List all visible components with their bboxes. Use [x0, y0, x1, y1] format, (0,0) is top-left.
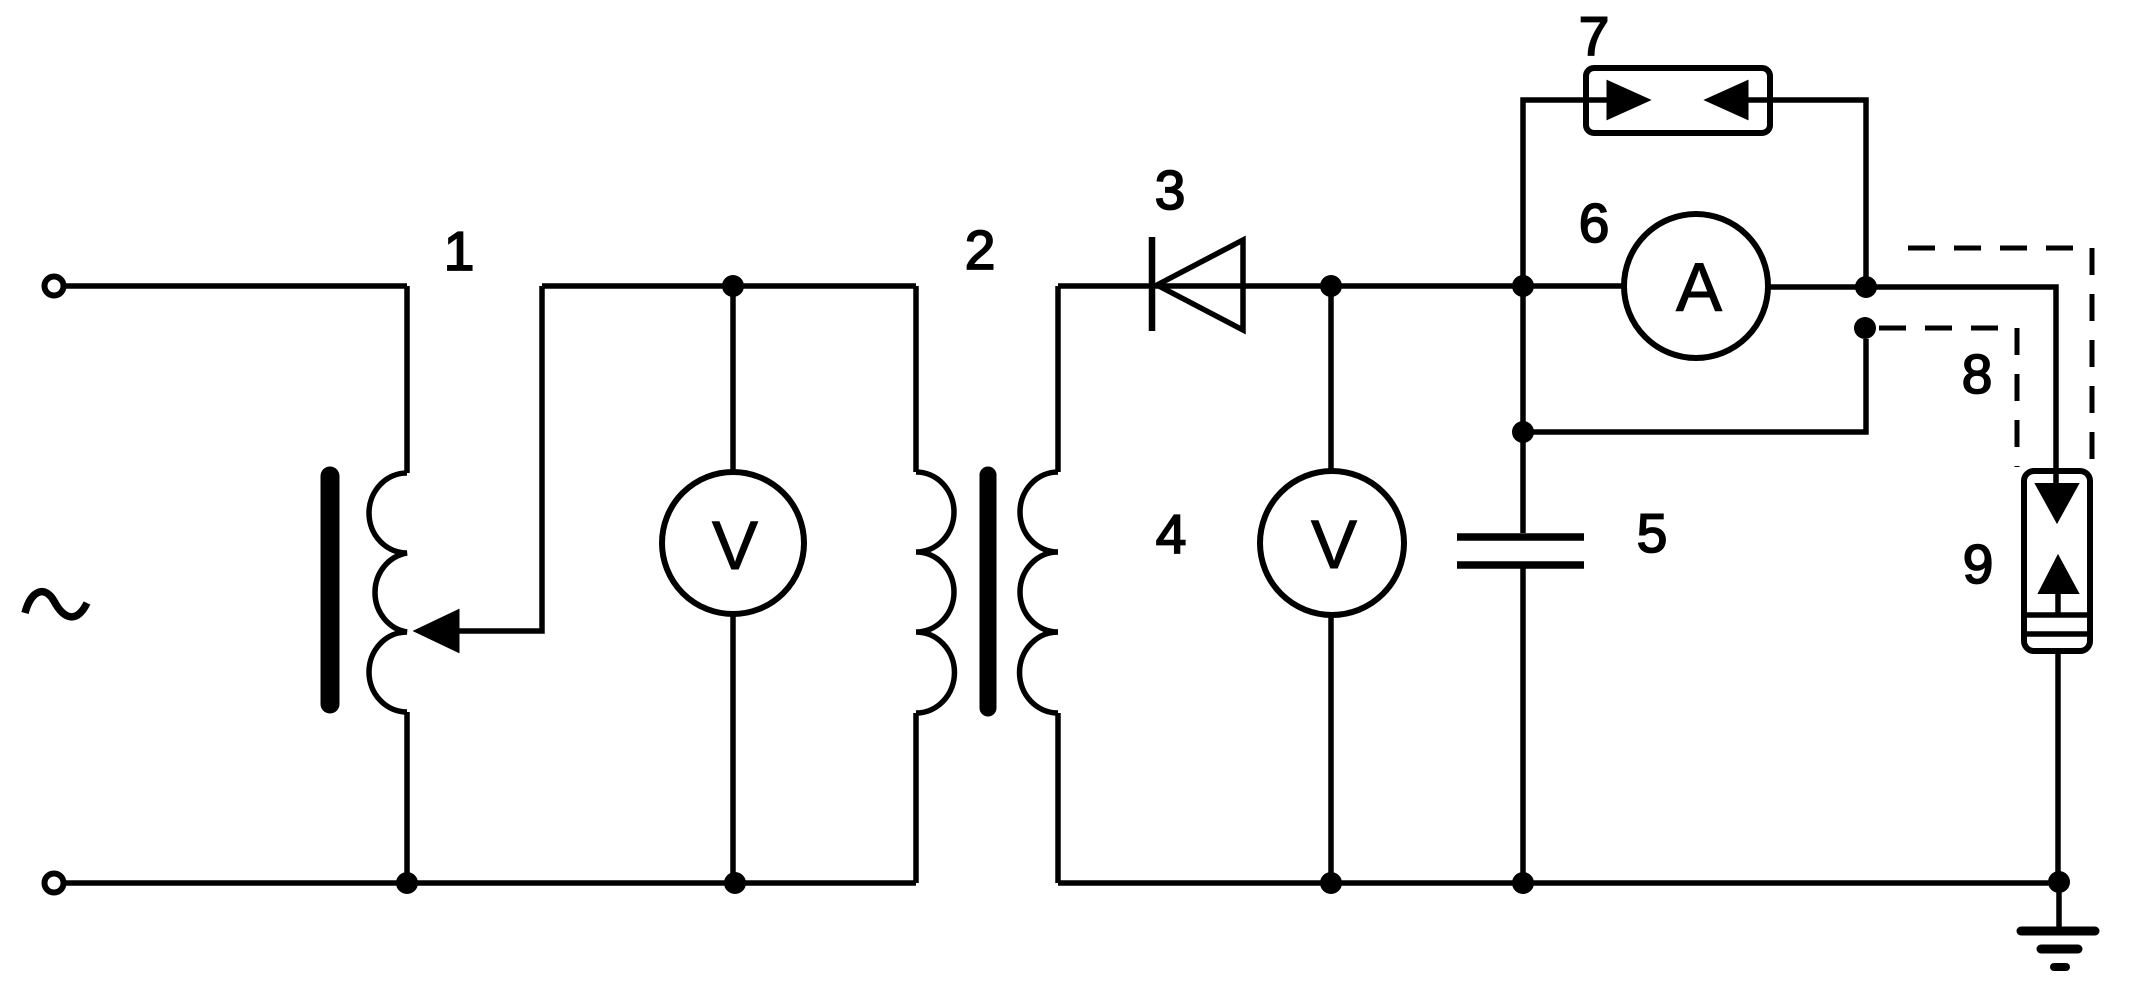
junction diode row / C5	[1512, 275, 1534, 297]
capacitor C5 bottom lead	[1520, 568, 1526, 883]
svg-text:V: V	[1311, 506, 1357, 583]
svg-text:5: 5	[1637, 502, 1668, 564]
tube 9 inner bar 2	[2027, 631, 2087, 637]
junction bottom wire / ground	[2048, 871, 2070, 893]
capacitor C5 plates	[1457, 533, 1584, 541]
wire autotransformer bottom	[404, 712, 410, 883]
junction bottom wire / C5	[1512, 872, 1534, 894]
transformer T2 core bar	[980, 475, 997, 708]
wire top-left horizontal	[64, 283, 407, 289]
svg-text:6: 6	[1579, 192, 1610, 254]
transformer T2 primary winding	[916, 472, 954, 713]
svg-text:2: 2	[965, 219, 996, 281]
wire bottom-right horizontal	[1058, 880, 2059, 886]
diode VD triangle	[1157, 240, 1243, 330]
node shunt end dot	[1854, 317, 1876, 339]
tube 9 box	[2024, 471, 2090, 651]
svg-text:9: 9	[1963, 533, 1994, 595]
ground bar 1	[2021, 927, 2095, 936]
junction diode row / spark gap right	[1855, 276, 1877, 298]
tube 9 lower triangle (up)	[2039, 556, 2078, 593]
svg-text:V: V	[712, 507, 758, 584]
autotransformer tap arrowhead	[416, 611, 458, 651]
autotransformer T1 winding	[369, 473, 407, 712]
wire down to transformer T2 primary	[913, 286, 919, 472]
wire T2 secondary top	[1055, 286, 1061, 472]
wire T2 secondary bottom	[1055, 713, 1061, 883]
terminal bottom-left	[45, 874, 64, 893]
terminal top-left	[45, 277, 64, 296]
junction diode row / V4	[1320, 275, 1342, 297]
wire down to autotransformer coil	[404, 286, 410, 473]
junction C5 lead / shunt	[1512, 421, 1534, 443]
ground bar 3	[2054, 963, 2066, 971]
junction top wire / V1	[722, 275, 744, 297]
svg-text:1: 1	[444, 220, 475, 282]
svg-text:4: 4	[1156, 503, 1187, 565]
spark gap F7 left lead	[1523, 100, 1640, 286]
wire bottom-left horizontal	[64, 880, 916, 886]
junction bottom wire / V1	[724, 872, 746, 894]
autotransformer T1 core bar	[321, 476, 340, 704]
voltmeter V4	[1260, 471, 1404, 615]
svg-text:3: 3	[1155, 159, 1186, 221]
ac source symbol	[25, 592, 87, 617]
voltmeter V1 bottom lead	[730, 614, 736, 883]
dashed region 8 outer	[1908, 248, 2092, 467]
ground bar 2	[2041, 945, 2078, 954]
junction bottom wire / V4	[1320, 872, 1342, 894]
svg-text:8: 8	[1962, 343, 1993, 405]
spark gap F7 right arrowhead	[1707, 82, 1747, 118]
voltmeter V4 bottom lead	[1328, 613, 1334, 883]
autotransformer tap arrow wire	[450, 286, 542, 631]
tube 9 stem	[2055, 593, 2061, 614]
diode VD cathode bar	[1149, 237, 1156, 331]
capacitor C5 top lead	[1520, 286, 1526, 533]
ammeter shunt lower wire	[1523, 339, 1866, 432]
spark gap F7 left arrowhead	[1608, 82, 1648, 118]
transformer T2 secondary winding	[1020, 472, 1058, 713]
voltmeter V1	[662, 472, 804, 614]
tube 9 upper triangle (down)	[2036, 484, 2078, 522]
spark gap F7 right lead	[1740, 100, 1866, 287]
junction bottom wire / T1	[396, 872, 418, 894]
spark gap F7 box	[1586, 68, 1770, 133]
wire up to transformer primary	[913, 713, 919, 883]
svg-text:A: A	[1676, 249, 1722, 326]
voltmeter V4 top lead	[1328, 286, 1334, 471]
voltmeter V1 top lead	[730, 286, 736, 472]
svg-text:7: 7	[1579, 5, 1610, 67]
wire ammeter to tube	[1768, 287, 2056, 484]
wire top middle horizontal	[542, 283, 916, 289]
tube 9 inner bar 1	[2027, 612, 2087, 618]
tube bottom lead	[2055, 651, 2061, 883]
wire diode row	[1058, 283, 1624, 289]
ammeter A6	[1624, 214, 1768, 358]
ground lead	[2056, 883, 2062, 927]
dashed region 8 inner	[1879, 328, 2017, 467]
